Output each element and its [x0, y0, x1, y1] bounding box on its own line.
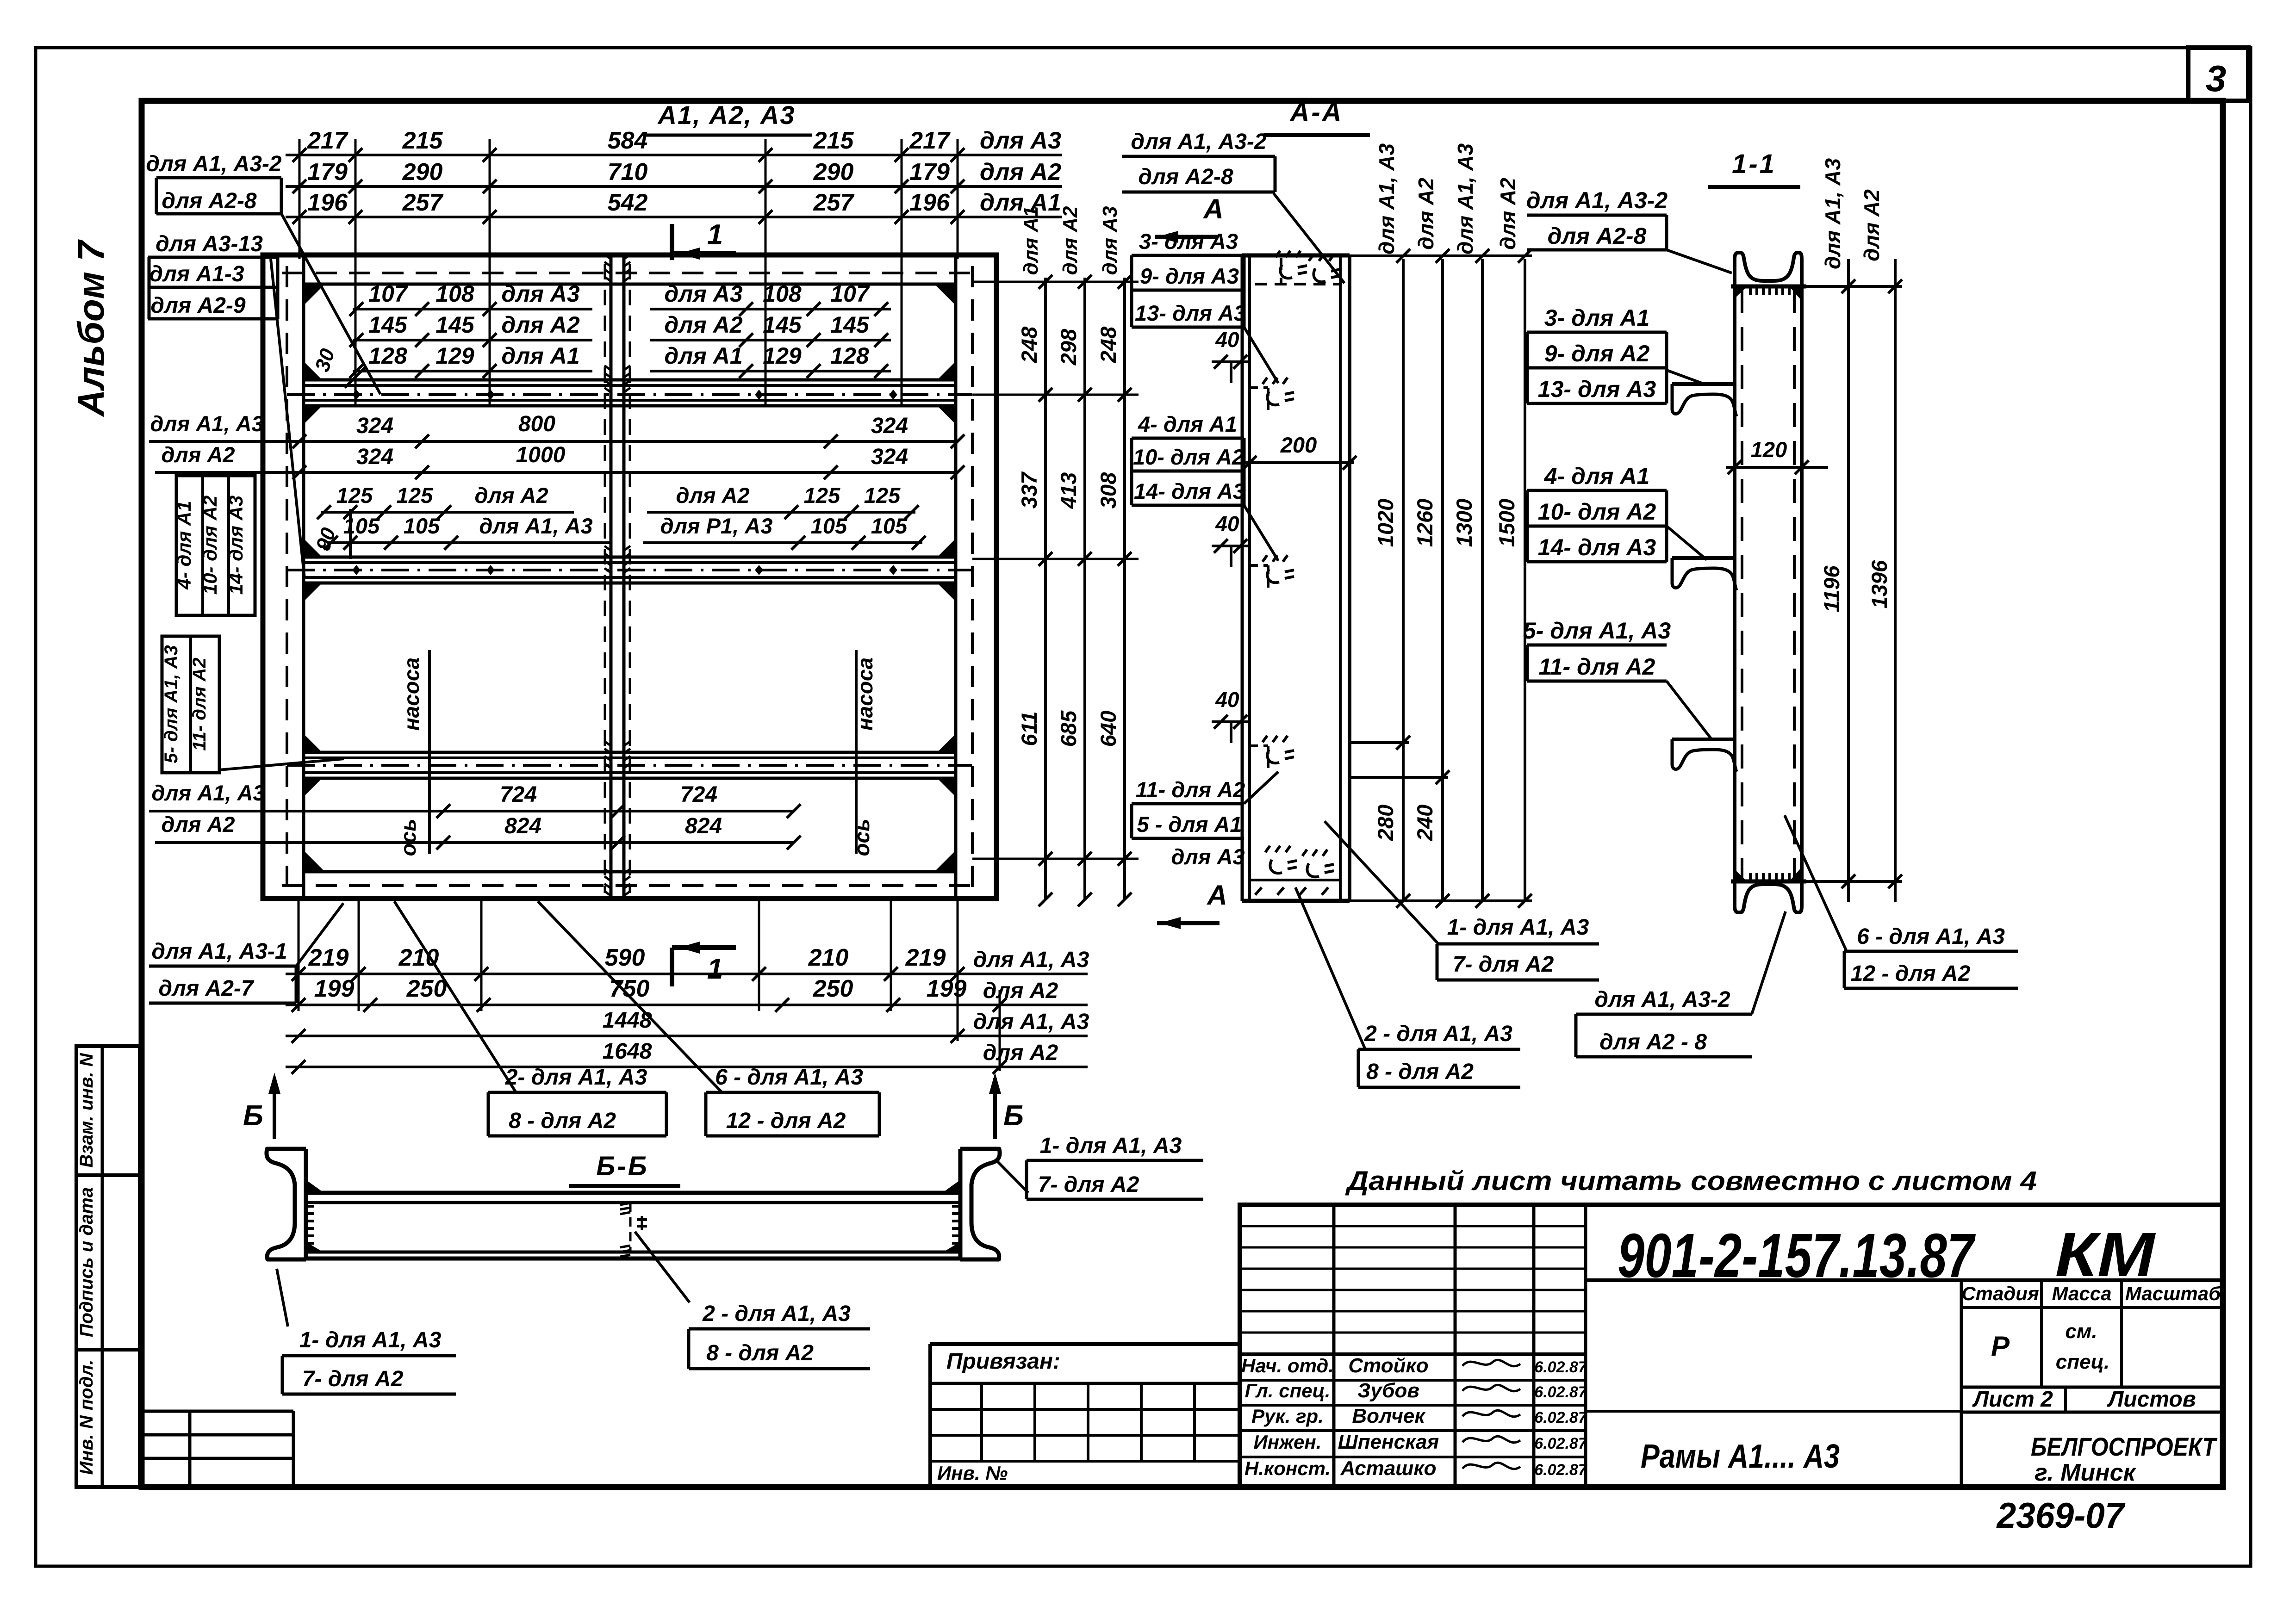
svg-text:ось: ось — [850, 819, 874, 856]
svg-text:для А1, А3-2: для А1, А3-2 — [1526, 187, 1668, 213]
svg-text:8 - для А2: 8 - для А2 — [1366, 1060, 1474, 1084]
svg-text:для А2-8: для А2-8 — [1548, 223, 1647, 249]
svg-text:КМ: КМ — [2055, 1220, 2156, 1290]
svg-text:7- для А2: 7- для А2 — [1038, 1172, 1139, 1197]
svg-text:Инжен.: Инжен. — [1254, 1431, 1322, 1453]
svg-text:13- для А3: 13- для А3 — [1135, 301, 1246, 325]
svg-text:для А1, А3-2: для А1, А3-2 — [1131, 130, 1267, 154]
svg-text:Зубов: Зубов — [1357, 1379, 1419, 1402]
svg-text:800: 800 — [518, 412, 555, 436]
svg-text:для А1: для А1 — [664, 343, 742, 369]
svg-text:Взам. инв. N: Взам. инв. N — [76, 1053, 97, 1167]
svg-text:А: А — [1206, 880, 1227, 911]
svg-text:125: 125 — [397, 483, 433, 508]
svg-text:для А2 - 8: для А2 - 8 — [1599, 1030, 1707, 1054]
svg-text:ось: ось — [396, 819, 420, 856]
svg-text:10- для А2: 10- для А2 — [1538, 499, 1656, 525]
svg-text:542: 542 — [608, 189, 648, 216]
svg-text:Подпись и дата: Подпись и дата — [76, 1187, 97, 1337]
svg-text:145: 145 — [763, 312, 802, 338]
svg-text:Инв. №: Инв. № — [937, 1462, 1008, 1484]
svg-text:120: 120 — [1751, 437, 1787, 462]
svg-text:125: 125 — [804, 483, 840, 508]
svg-text:217: 217 — [909, 127, 951, 154]
svg-text:1- для А1, А3: 1- для А1, А3 — [299, 1328, 442, 1352]
svg-text:для А2: для А2 — [501, 312, 579, 338]
svg-text:10- для А2: 10- для А2 — [1133, 445, 1244, 469]
svg-text:насоса: насоса — [853, 657, 877, 731]
svg-text:107: 107 — [830, 281, 870, 307]
svg-text:для А2: для А2 — [676, 483, 749, 508]
svg-text:217: 217 — [307, 127, 348, 154]
svg-text:12 - для А2: 12 - для А2 — [726, 1109, 846, 1133]
svg-text:для А1, А3: для А1, А3 — [1453, 143, 1477, 255]
svg-text:для А1, А3: для А1, А3 — [479, 514, 592, 538]
svg-text:для Р1, А3: для Р1, А3 — [660, 514, 773, 538]
svg-text:6.02.87: 6.02.87 — [1534, 1409, 1588, 1426]
svg-text:5 - для А1: 5 - для А1 — [1137, 812, 1242, 837]
svg-text:6 - для А1, А3: 6 - для А1, А3 — [1857, 924, 2005, 949]
svg-text:Нач. отд.: Нач. отд. — [1241, 1355, 1334, 1376]
svg-text:324: 324 — [356, 414, 393, 438]
svg-text:3- для А3: 3- для А3 — [1139, 229, 1238, 254]
svg-text:219: 219 — [308, 944, 349, 971]
svg-text:40: 40 — [1215, 688, 1239, 712]
svg-text:А: А — [1202, 193, 1223, 224]
svg-text:для А1-3: для А1-3 — [149, 262, 244, 286]
svg-text:для А2: для А2 — [980, 159, 1061, 186]
svg-text:для А2: для А2 — [161, 442, 235, 467]
svg-text:Альбом 7: Альбом 7 — [70, 239, 112, 417]
svg-text:Гл. спец.: Гл. спец. — [1245, 1380, 1331, 1401]
svg-text:для А2: для А2 — [1414, 178, 1438, 250]
svg-text:А-А: А-А — [1289, 97, 1343, 127]
svg-text:12 - для А2: 12 - для А2 — [1851, 961, 1971, 986]
svg-text:Волчек: Волчек — [1352, 1405, 1426, 1427]
svg-text:196: 196 — [909, 189, 950, 216]
svg-text:8 - для А2: 8 - для А2 — [509, 1109, 616, 1133]
svg-text:для А2-8: для А2-8 — [162, 189, 256, 213]
svg-text:Р: Р — [1991, 1331, 2010, 1362]
svg-text:290: 290 — [813, 159, 854, 186]
svg-text:Рамы А1.... А3: Рамы А1.... А3 — [1641, 1438, 1840, 1475]
svg-text:196: 196 — [307, 189, 348, 216]
svg-text:1260: 1260 — [1412, 499, 1437, 547]
svg-text:для А2: для А2 — [983, 979, 1058, 1003]
svg-text:для А2: для А2 — [1860, 189, 1884, 261]
svg-text:5- для А1, А3: 5- для А1, А3 — [1523, 618, 1671, 644]
svg-text:105: 105 — [811, 514, 847, 538]
svg-text:1020: 1020 — [1373, 499, 1398, 547]
svg-text:611: 611 — [1017, 712, 1041, 746]
svg-text:8 - для А2: 8 - для А2 — [706, 1341, 814, 1365]
svg-text:640: 640 — [1096, 711, 1120, 747]
svg-text:для А3: для А3 — [664, 281, 742, 307]
svg-text:для А2: для А2 — [1059, 206, 1082, 275]
svg-text:337: 337 — [1017, 471, 1041, 508]
svg-text:824: 824 — [504, 814, 541, 838]
svg-text:250: 250 — [406, 975, 447, 1002]
svg-text:для А1: для А1 — [1020, 206, 1042, 275]
svg-text:11- для А2: 11- для А2 — [1136, 777, 1245, 802]
svg-text:10- для А2: 10- для А2 — [199, 496, 221, 595]
svg-text:для А2: для А2 — [474, 483, 548, 508]
svg-text:1: 1 — [707, 219, 723, 251]
svg-text:2 - для А1, А3: 2 - для А1, А3 — [702, 1302, 851, 1326]
svg-text:для А2: для А2 — [1496, 178, 1520, 250]
svg-text:для А1, А3: для А1, А3 — [973, 948, 1089, 972]
svg-text:1396: 1396 — [1867, 560, 1892, 608]
svg-text:для А3: для А3 — [1099, 206, 1121, 275]
svg-text:Б-Б: Б-Б — [596, 1151, 648, 1181]
svg-text:11- для А2: 11- для А2 — [189, 657, 210, 750]
svg-text:для А3-13: для А3-13 — [156, 232, 263, 256]
svg-text:1500: 1500 — [1494, 499, 1519, 547]
svg-text:240: 240 — [1412, 805, 1437, 841]
svg-text:199: 199 — [927, 975, 967, 1002]
svg-text:250: 250 — [813, 975, 853, 1002]
svg-text:для А1, А3-2: для А1, А3-2 — [1594, 987, 1730, 1012]
svg-text:см.: см. — [2065, 1320, 2097, 1343]
svg-text:для А2-7: для А2-7 — [158, 976, 254, 1001]
svg-text:324: 324 — [871, 414, 908, 438]
svg-text:Рук. гр.: Рук. гр. — [1251, 1405, 1324, 1427]
svg-text:6.02.87: 6.02.87 — [1534, 1461, 1588, 1479]
svg-text:5- для А1, А3: 5- для А1, А3 — [161, 645, 181, 763]
svg-text:6.02.87: 6.02.87 — [1534, 1383, 1588, 1401]
svg-text:Стадия: Стадия — [1961, 1283, 2039, 1304]
svg-text:для А1, А3-1: для А1, А3-1 — [151, 939, 287, 964]
svg-text:107: 107 — [368, 281, 408, 307]
svg-text:1: 1 — [707, 953, 723, 985]
svg-text:3: 3 — [2206, 58, 2227, 99]
svg-text:для А2: для А2 — [664, 312, 742, 338]
svg-text:для А1: для А1 — [501, 343, 579, 369]
svg-text:6.02.87: 6.02.87 — [1534, 1358, 1588, 1376]
svg-text:для А3: для А3 — [1171, 844, 1244, 869]
svg-text:6 - для А1, А3: 6 - для А1, А3 — [715, 1065, 863, 1090]
svg-text:для А3: для А3 — [501, 281, 579, 307]
svg-text:14- для А3: 14- для А3 — [225, 496, 247, 595]
svg-text:Листов: Листов — [2107, 1387, 2196, 1412]
svg-text:210: 210 — [398, 944, 439, 971]
svg-text:125: 125 — [336, 483, 373, 508]
svg-text:для А2-9: для А2-9 — [150, 293, 245, 318]
svg-text:219: 219 — [905, 944, 946, 971]
svg-text:1-1: 1-1 — [1732, 149, 1776, 179]
svg-text:290: 290 — [402, 159, 443, 186]
svg-text:4- для А1: 4- для А1 — [173, 501, 195, 589]
svg-text:280: 280 — [1373, 805, 1398, 841]
svg-text:145: 145 — [368, 312, 408, 338]
svg-text:324: 324 — [871, 445, 908, 469]
svg-text:7- для А2: 7- для А2 — [1453, 952, 1554, 977]
svg-text:Н.конст.: Н.конст. — [1244, 1457, 1331, 1479]
svg-text:129: 129 — [436, 343, 474, 369]
svg-text:Лист 2: Лист 2 — [1972, 1387, 2053, 1412]
svg-text:3- для А1: 3- для А1 — [1544, 305, 1650, 331]
svg-text:6.02.87: 6.02.87 — [1534, 1435, 1588, 1452]
svg-text:257: 257 — [813, 189, 855, 216]
svg-text:4- для А1: 4- для А1 — [1544, 463, 1650, 489]
svg-text:105: 105 — [871, 514, 908, 538]
svg-text:9- для А3: 9- для А3 — [1140, 264, 1239, 288]
svg-text:248: 248 — [1017, 326, 1041, 363]
svg-text:Стойко: Стойко — [1348, 1354, 1428, 1377]
svg-text:105: 105 — [404, 514, 440, 538]
svg-text:БЕЛГОСПРОЕКТ: БЕЛГОСПРОЕКТ — [2031, 1432, 2218, 1461]
svg-text:308: 308 — [1096, 472, 1120, 508]
svg-text:4- для А1: 4- для А1 — [1138, 412, 1237, 436]
svg-text:2- для А1, А3: 2- для А1, А3 — [505, 1065, 647, 1090]
svg-text:824: 824 — [685, 814, 722, 838]
svg-text:298: 298 — [1056, 329, 1081, 366]
svg-text:для А1, А3: для А1, А3 — [150, 411, 263, 436]
svg-text:Асташко: Асташко — [1340, 1457, 1436, 1480]
svg-text:901-2-157.13.87: 901-2-157.13.87 — [1618, 1221, 1976, 1290]
svg-text:129: 129 — [763, 343, 802, 369]
svg-text:1300: 1300 — [1452, 499, 1476, 547]
svg-text:7- для А2: 7- для А2 — [302, 1367, 404, 1391]
svg-text:1000: 1000 — [516, 443, 566, 467]
svg-text:для А2: для А2 — [161, 812, 235, 837]
svg-text:105: 105 — [343, 514, 380, 538]
svg-text:584: 584 — [608, 127, 648, 154]
svg-text:128: 128 — [830, 343, 869, 369]
svg-text:11- для А2: 11- для А2 — [1539, 654, 1655, 680]
svg-text:215: 215 — [402, 127, 443, 154]
svg-text:179: 179 — [909, 159, 950, 186]
svg-text:1- для А1, А3: 1- для А1, А3 — [1447, 915, 1589, 940]
svg-text:590: 590 — [605, 944, 645, 971]
svg-text:1196: 1196 — [1819, 565, 1844, 613]
svg-text:108: 108 — [436, 281, 474, 307]
svg-text:Масса: Масса — [2052, 1283, 2112, 1304]
svg-text:Данный лист читать совместн: Данный лист читать совместно с листом 4 — [1344, 1166, 2037, 1196]
svg-text:200: 200 — [1280, 433, 1317, 457]
svg-text:179: 179 — [307, 159, 348, 186]
svg-text:14- для А3: 14- для А3 — [1538, 534, 1656, 560]
svg-text:Шпенская: Шпенская — [1338, 1431, 1439, 1453]
svg-text:Привязан:: Привязан: — [946, 1349, 1060, 1374]
svg-text:128: 128 — [368, 343, 407, 369]
svg-text:2 - для А1, А3: 2 - для А1, А3 — [1364, 1022, 1512, 1046]
svg-text:г. Минск: г. Минск — [2035, 1459, 2136, 1486]
svg-text:для А2: для А2 — [983, 1041, 1058, 1065]
svg-text:для А1, А3-2: для А1, А3-2 — [146, 152, 282, 176]
svg-text:724: 724 — [500, 782, 537, 807]
svg-text:2369-07: 2369-07 — [1996, 1495, 2126, 1536]
svg-text:Инв. N подл.: Инв. N подл. — [76, 1360, 97, 1475]
svg-text:145: 145 — [830, 312, 870, 338]
svg-text:для А3: для А3 — [980, 127, 1061, 154]
svg-text:14- для А3: 14- для А3 — [1134, 479, 1245, 503]
svg-text:насоса: насоса — [399, 657, 423, 731]
svg-text:248: 248 — [1096, 326, 1120, 363]
svg-text:257: 257 — [402, 189, 444, 216]
svg-text:1648: 1648 — [603, 1039, 652, 1064]
svg-text:1- для А1, А3: 1- для А1, А3 — [1040, 1134, 1182, 1158]
svg-text:А1, А2, А3: А1, А2, А3 — [657, 100, 796, 130]
svg-text:40: 40 — [1215, 512, 1239, 536]
svg-text:413: 413 — [1056, 472, 1081, 509]
svg-text:125: 125 — [864, 483, 901, 508]
svg-text:724: 724 — [680, 782, 717, 807]
svg-text:40: 40 — [1215, 328, 1239, 352]
svg-text:Б: Б — [1003, 1100, 1024, 1132]
svg-text:для А1, А3: для А1, А3 — [973, 1010, 1089, 1034]
svg-text:для А2-8: для А2-8 — [1138, 165, 1233, 189]
svg-text:Б: Б — [243, 1100, 263, 1132]
svg-text:9- для А2: 9- для А2 — [1544, 341, 1650, 366]
svg-text:145: 145 — [436, 312, 475, 338]
svg-text:Масштаб: Масштаб — [2125, 1283, 2221, 1304]
svg-text:710: 710 — [608, 159, 648, 186]
svg-text:210: 210 — [808, 944, 849, 971]
svg-text:13- для А3: 13- для А3 — [1538, 376, 1656, 402]
svg-text:для А1, А3: для А1, А3 — [1375, 143, 1399, 255]
svg-text:для А1, А3: для А1, А3 — [1821, 158, 1845, 270]
svg-text:215: 215 — [813, 127, 854, 154]
svg-text:685: 685 — [1056, 710, 1081, 747]
svg-text:199: 199 — [314, 975, 355, 1002]
svg-text:спец.: спец. — [2056, 1351, 2109, 1373]
svg-text:108: 108 — [763, 281, 802, 307]
svg-text:для А1, А3: для А1, А3 — [151, 781, 265, 805]
svg-text:324: 324 — [356, 445, 393, 469]
